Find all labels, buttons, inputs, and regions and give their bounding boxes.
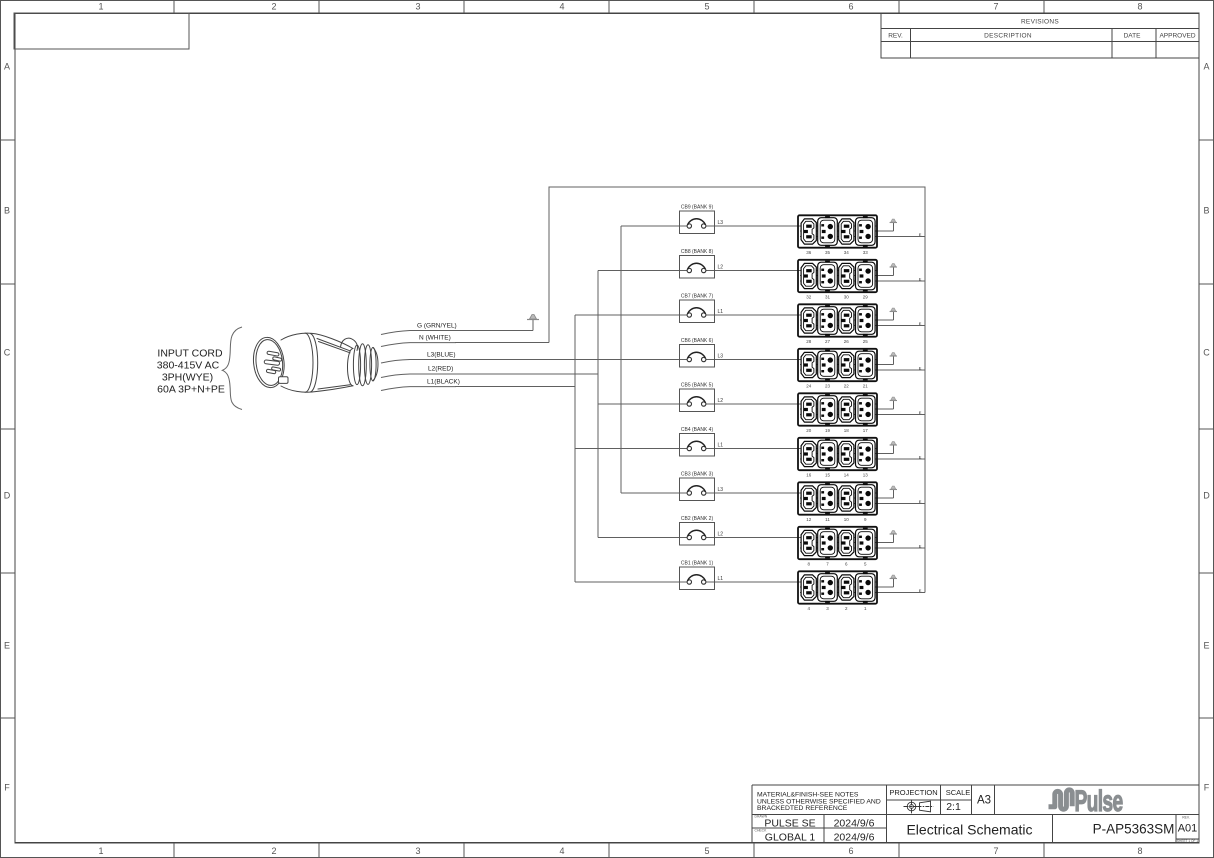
svg-text:4: 4 [807, 606, 810, 611]
svg-text:9: 9 [864, 517, 867, 522]
svg-text:REV.: REV. [1182, 816, 1190, 820]
svg-text:2: 2 [271, 846, 276, 856]
svg-text:18: 18 [844, 428, 850, 433]
svg-text:2024/9/6: 2024/9/6 [834, 832, 875, 844]
svg-text:Pulse: Pulse [1075, 785, 1124, 818]
svg-text:20: 20 [806, 428, 812, 433]
svg-text:31: 31 [825, 294, 831, 299]
svg-text:13: 13 [863, 472, 869, 477]
svg-text:E: E [919, 321, 922, 326]
svg-text:7: 7 [826, 561, 829, 566]
svg-text:8: 8 [1137, 846, 1142, 856]
svg-text:17: 17 [863, 428, 869, 433]
svg-text:N (WHITE): N (WHITE) [419, 335, 451, 342]
svg-text:4: 4 [559, 2, 564, 12]
svg-text:24: 24 [806, 383, 812, 388]
svg-text:SHEET 1 OF 1: SHEET 1 OF 1 [1177, 839, 1198, 843]
svg-text:PROJECTION: PROJECTION [889, 788, 937, 797]
svg-text:A01: A01 [1178, 823, 1198, 835]
svg-text:3: 3 [826, 606, 829, 611]
svg-text:34: 34 [844, 250, 850, 255]
svg-text:L2: L2 [718, 532, 724, 538]
svg-text:7: 7 [993, 2, 998, 12]
svg-text:2: 2 [271, 2, 276, 12]
svg-text:11: 11 [825, 517, 830, 522]
svg-text:26: 26 [844, 339, 850, 344]
svg-text:2: 2 [845, 606, 848, 611]
svg-text:P-AP5363SM: P-AP5363SM [1093, 822, 1175, 837]
svg-text:CB1 (BANK 1): CB1 (BANK 1) [681, 561, 714, 567]
svg-text:E: E [919, 454, 922, 459]
svg-text:CB6 (BANK 6): CB6 (BANK 6) [681, 338, 714, 344]
svg-text:SCALE: SCALE [946, 788, 971, 797]
svg-text:15: 15 [825, 472, 831, 477]
svg-text:2:1: 2:1 [946, 801, 961, 813]
svg-text:DESCRIPTION: DESCRIPTION [984, 33, 1032, 40]
svg-text:25: 25 [863, 339, 869, 344]
svg-text:2024/9/6: 2024/9/6 [834, 818, 875, 830]
svg-text:3: 3 [415, 846, 420, 856]
svg-text:L3: L3 [718, 220, 724, 226]
svg-text:L2(RED): L2(RED) [428, 366, 453, 373]
svg-text:12: 12 [806, 517, 812, 522]
svg-text:32: 32 [806, 294, 812, 299]
svg-text:L3(BLUE): L3(BLUE) [427, 352, 456, 359]
svg-text:5: 5 [704, 2, 709, 12]
svg-text:8: 8 [1137, 2, 1142, 12]
svg-text:BRACKEDTED REFERENCE: BRACKEDTED REFERENCE [757, 805, 848, 812]
svg-text:L2: L2 [718, 265, 724, 271]
svg-text:CB8 (BANK 8): CB8 (BANK 8) [681, 249, 714, 255]
svg-text:E: E [919, 410, 922, 415]
svg-text:C: C [4, 348, 11, 358]
svg-text:36: 36 [806, 250, 812, 255]
svg-text:F: F [1204, 783, 1210, 793]
svg-text:22: 22 [844, 383, 850, 388]
svg-text:INPUT CORD: INPUT CORD [157, 348, 223, 360]
svg-text:REVISIONS: REVISIONS [1021, 19, 1059, 26]
svg-text:C: C [1203, 348, 1210, 358]
svg-text:L1(BLACK): L1(BLACK) [427, 379, 460, 386]
svg-text:L3: L3 [718, 354, 724, 360]
svg-text:21: 21 [863, 383, 869, 388]
svg-text:A3: A3 [977, 795, 991, 807]
svg-text:3: 3 [415, 2, 420, 12]
svg-text:PULSE SE: PULSE SE [764, 818, 815, 830]
svg-text:L1: L1 [718, 309, 724, 315]
svg-text:A: A [4, 62, 10, 72]
svg-text:E: E [919, 232, 922, 237]
svg-text:35: 35 [825, 250, 831, 255]
svg-text:CB4 (BANK 4): CB4 (BANK 4) [681, 427, 714, 433]
svg-text:L2: L2 [718, 398, 724, 404]
svg-text:F: F [4, 783, 10, 793]
svg-text:6: 6 [848, 2, 853, 12]
svg-text:Electrical Schematic: Electrical Schematic [906, 822, 1032, 838]
svg-text:380-415V AC: 380-415V AC [157, 360, 220, 372]
svg-text:E: E [919, 499, 922, 504]
svg-text:1: 1 [864, 606, 867, 611]
svg-text:DATE: DATE [1124, 33, 1142, 40]
svg-text:GLOBAL 1: GLOBAL 1 [765, 832, 816, 844]
svg-text:E: E [919, 543, 922, 548]
svg-text:APPROVED: APPROVED [1159, 33, 1195, 40]
svg-text:30: 30 [844, 294, 850, 299]
svg-text:CB3 (BANK 3): CB3 (BANK 3) [681, 472, 714, 478]
svg-text:8: 8 [807, 561, 810, 566]
svg-text:6: 6 [848, 846, 853, 856]
svg-text:B: B [1203, 206, 1209, 216]
svg-text:1: 1 [98, 2, 103, 12]
svg-text:CB9 (BANK 9): CB9 (BANK 9) [681, 205, 714, 211]
svg-text:D: D [4, 491, 11, 501]
svg-text:E: E [4, 641, 10, 651]
svg-text:B: B [4, 206, 10, 216]
svg-text:REV.: REV. [888, 33, 903, 40]
svg-text:6: 6 [845, 561, 848, 566]
svg-text:L1: L1 [718, 443, 724, 449]
svg-text:E: E [919, 365, 922, 370]
svg-text:A: A [1203, 62, 1209, 72]
svg-text:D: D [1203, 491, 1210, 501]
svg-text:33: 33 [863, 250, 869, 255]
svg-text:27: 27 [825, 339, 831, 344]
svg-text:G (GRN/YEL): G (GRN/YEL) [417, 323, 457, 330]
svg-text:CB2 (BANK 2): CB2 (BANK 2) [681, 516, 714, 522]
svg-text:7: 7 [993, 846, 998, 856]
svg-text:4: 4 [559, 846, 564, 856]
svg-text:23: 23 [825, 383, 831, 388]
svg-text:29: 29 [863, 294, 869, 299]
svg-text:10: 10 [844, 517, 850, 522]
svg-text:1: 1 [98, 846, 103, 856]
svg-text:5: 5 [704, 846, 709, 856]
svg-text:L1: L1 [718, 576, 724, 582]
svg-text:19: 19 [825, 428, 831, 433]
svg-text:60A 3P+N+PE: 60A 3P+N+PE [157, 384, 225, 396]
svg-text:16: 16 [806, 472, 812, 477]
svg-text:E: E [919, 588, 922, 593]
svg-text:3PH(WYE): 3PH(WYE) [162, 372, 213, 384]
svg-text:E: E [1203, 641, 1209, 651]
svg-text:5: 5 [864, 561, 867, 566]
svg-text:CB5 (BANK 5): CB5 (BANK 5) [681, 383, 714, 389]
svg-text:CB7 (BANK 7): CB7 (BANK 7) [681, 294, 714, 300]
svg-text:E: E [919, 276, 922, 281]
svg-text:L3: L3 [718, 487, 724, 493]
svg-text:14: 14 [844, 472, 850, 477]
svg-text:28: 28 [806, 339, 812, 344]
